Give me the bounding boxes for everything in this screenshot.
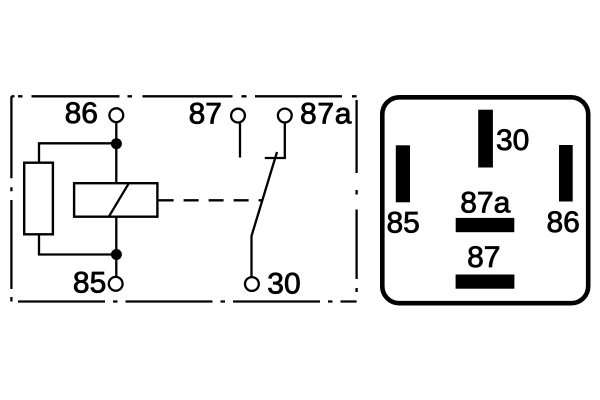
pin 30 blade [478, 110, 493, 168]
junction node B (85 / resistor) [111, 249, 122, 260]
coil diagonal stroke [109, 183, 129, 217]
wire coil bottom to terminal 85 [115, 217, 117, 276]
mechanical link (dashed) coil to armature [159, 199, 262, 201]
wire terminal 87a down [284, 123, 286, 158]
relay housing outline, right edge [355, 96, 357, 301]
svg-text:87: 87 [189, 97, 222, 130]
terminal 87 [231, 109, 245, 123]
svg-text:87a: 87a [300, 97, 352, 130]
wire terminal 87 contact stub [239, 123, 241, 157]
terminal 30 [245, 277, 259, 291]
pin 86 blade [559, 145, 573, 202]
svg-text:86: 86 [65, 97, 98, 130]
terminal 85 [109, 277, 123, 291]
svg-text:87a: 87a [460, 187, 510, 220]
pin 85 blade [396, 145, 410, 202]
svg-text:85: 85 [387, 206, 420, 239]
svg-text:30: 30 [496, 124, 529, 157]
relay housing outline, left edge [10, 96, 12, 301]
terminal 86 [109, 108, 123, 122]
relay housing outline (dash-dot enclosure), top edge [11, 95, 356, 97]
svg-text:85: 85 [73, 266, 106, 299]
relay coil K1 body [74, 183, 157, 217]
pin 87 blade [456, 275, 515, 289]
pin 87a blade [456, 218, 515, 232]
wire junction A to resistor top [39, 143, 116, 163]
wire terminal 86 to coil top [115, 123, 117, 183]
junction node A (86 / resistor) [111, 138, 122, 149]
terminal 87a [278, 109, 292, 123]
switch armature (movable contact 30-87a) [252, 152, 278, 276]
resistor R (parallel resistor) [24, 163, 53, 235]
relay base outline (rounded square) [382, 97, 588, 303]
fixed contact 87a (horizontal) [265, 157, 286, 159]
svg-text:86: 86 [547, 206, 580, 239]
svg-text:87: 87 [467, 241, 500, 274]
relay housing outline, bottom edge [11, 300, 356, 302]
svg-text:30: 30 [267, 267, 300, 300]
wire resistor bottom to junction B [39, 234, 116, 254]
